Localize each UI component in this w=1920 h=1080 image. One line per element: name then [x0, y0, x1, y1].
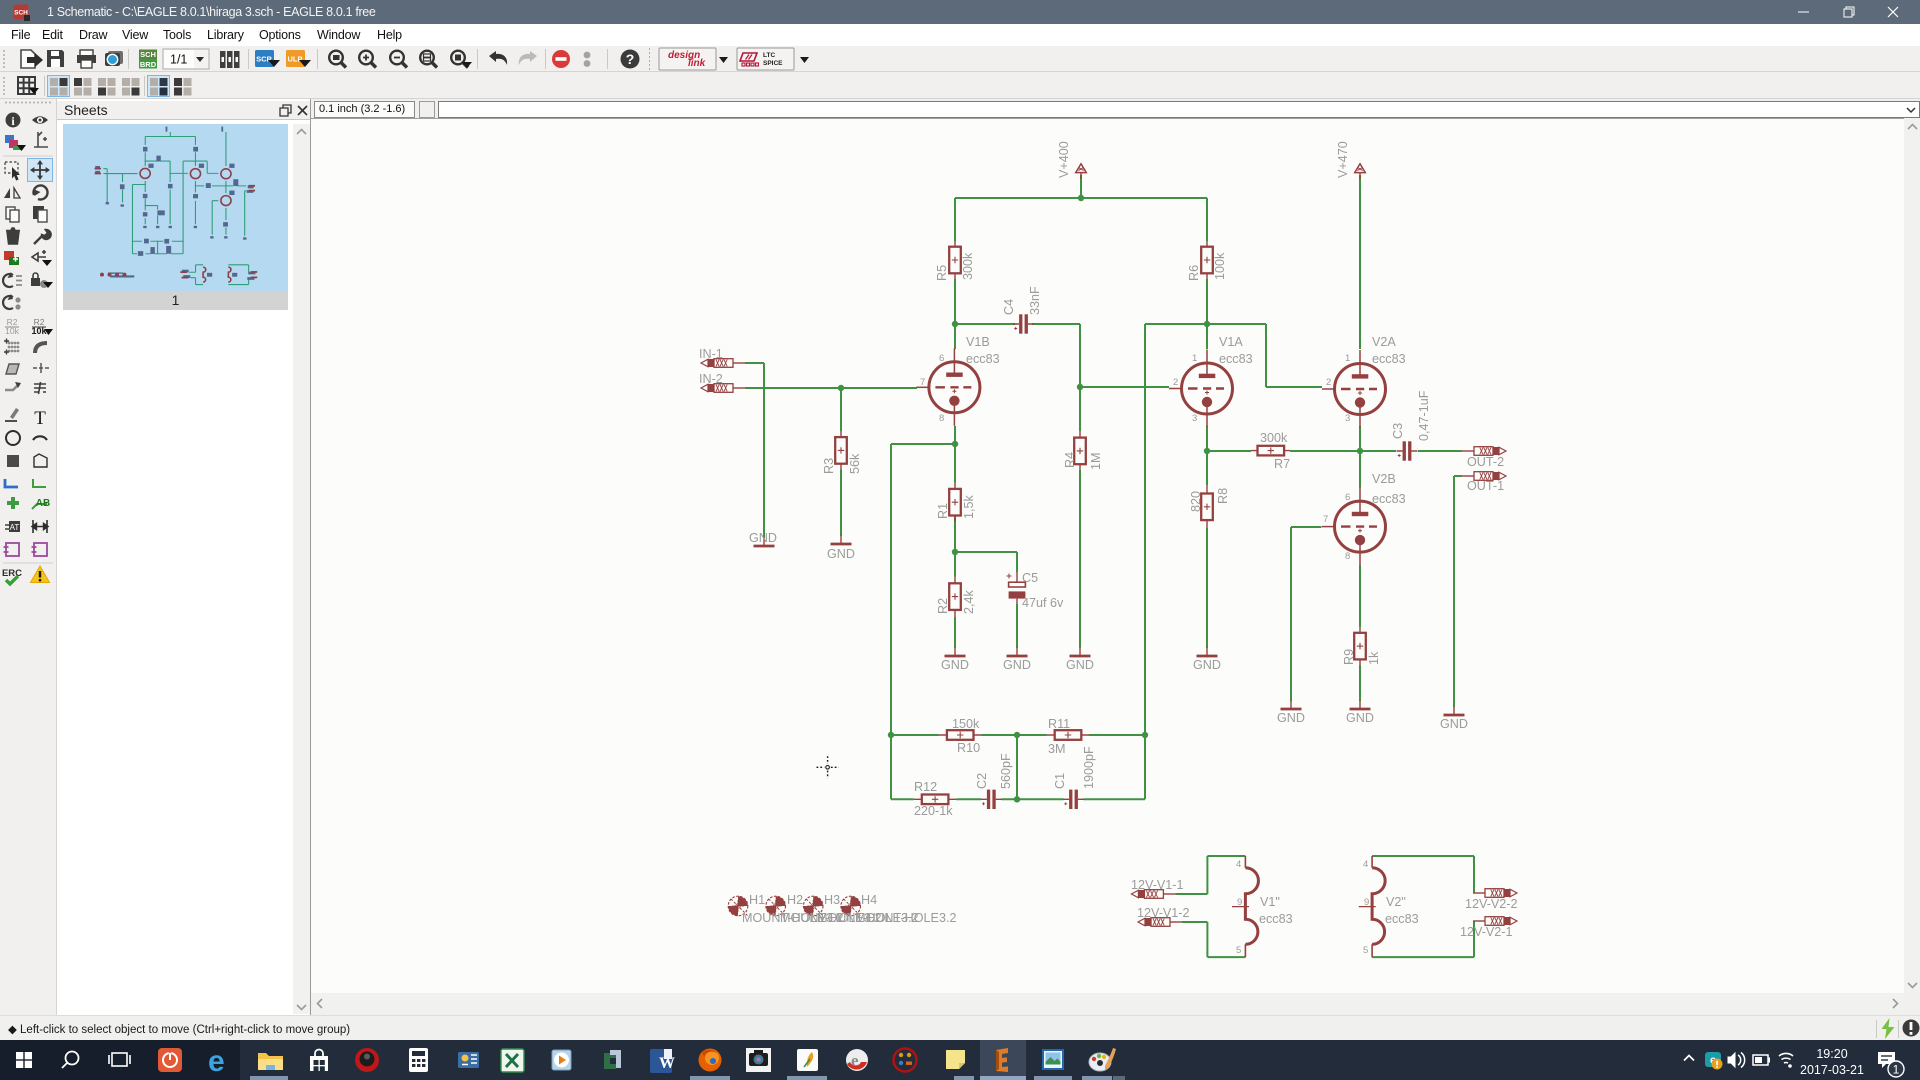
svg-text:3: 3 [1192, 413, 1197, 424]
svg-text:R3: R3 [822, 458, 836, 474]
svg-text:9: 9 [1237, 897, 1242, 908]
svg-text:SPICE: SPICE [763, 60, 783, 67]
svg-text:2: 2 [1326, 377, 1331, 388]
svg-text:V1": V1" [1260, 895, 1280, 909]
svg-text:R9: R9 [1342, 649, 1356, 665]
svg-text:6: 6 [939, 353, 944, 364]
svg-text:R6: R6 [1187, 265, 1201, 281]
svg-text:R7: R7 [1274, 457, 1290, 471]
svg-text:H2: H2 [787, 893, 803, 907]
svg-text:R4: R4 [1063, 452, 1077, 468]
svg-text:4: 4 [1236, 859, 1241, 870]
svg-text:12V-V2-2: 12V-V2-2 [1465, 897, 1518, 911]
svg-text:7: 7 [1323, 514, 1328, 525]
svg-text:56k: 56k [848, 453, 862, 474]
svg-text:1k: 1k [1367, 651, 1381, 665]
svg-text:OUT-2: OUT-2 [1467, 455, 1504, 469]
svg-text:6: 6 [1345, 492, 1350, 503]
svg-text:C3: C3 [1391, 423, 1405, 439]
svg-text:1: 1 [1893, 1063, 1900, 1077]
svg-text:ecc83: ecc83 [966, 352, 1000, 366]
svg-text:GND: GND [749, 531, 777, 545]
svg-text:12V-V1-1: 12V-V1-1 [1131, 878, 1184, 892]
svg-text:12V-V2-1: 12V-V2-1 [1460, 925, 1513, 939]
svg-text:R12: R12 [914, 780, 937, 794]
svg-text:8: 8 [1345, 551, 1350, 562]
svg-text:47uf 6v: 47uf 6v [1022, 596, 1064, 610]
svg-text:12V-V1-2: 12V-V1-2 [1137, 906, 1190, 920]
svg-text:150k: 150k [952, 717, 980, 731]
svg-text:T: T [34, 408, 46, 429]
svg-text:GND: GND [1066, 658, 1094, 672]
svg-text:9: 9 [1364, 897, 1369, 908]
svg-text:GND: GND [1440, 717, 1468, 731]
svg-text:SCH: SCH [140, 50, 156, 59]
svg-text:GND: GND [1346, 711, 1374, 725]
svg-text:300k: 300k [1260, 431, 1288, 445]
svg-text:7: 7 [920, 377, 925, 388]
svg-text:V1B: V1B [966, 335, 990, 349]
svg-text:IN-1: IN-1 [699, 347, 723, 361]
svg-text:1: 1 [1192, 353, 1197, 364]
svg-text:3: 3 [1345, 413, 1350, 424]
svg-text:8: 8 [939, 413, 944, 424]
svg-text:1: 1 [1345, 353, 1350, 364]
svg-text:820: 820 [1189, 491, 1203, 512]
svg-text:5: 5 [1236, 945, 1241, 956]
svg-text:ecc83: ecc83 [1219, 352, 1253, 366]
svg-text:IN-2: IN-2 [699, 372, 723, 386]
svg-text:e: e [851, 1051, 859, 1070]
svg-text:ERC: ERC [2, 568, 22, 579]
svg-text:ULP: ULP [288, 55, 303, 64]
svg-text:300k: 300k [961, 252, 975, 280]
svg-text:2017-03-21: 2017-03-21 [1800, 1063, 1864, 1077]
svg-text:C5: C5 [1022, 571, 1038, 585]
svg-text:R1: R1 [936, 503, 950, 519]
svg-text:V+400: V+400 [1057, 141, 1071, 178]
svg-text:GND: GND [1003, 658, 1031, 672]
svg-text:5: 5 [1363, 945, 1368, 956]
svg-text:C4: C4 [1002, 299, 1016, 315]
svg-text:GND: GND [827, 547, 855, 561]
svg-text:ecc83: ecc83 [1372, 492, 1406, 506]
svg-text:V2A: V2A [1372, 335, 1396, 349]
svg-text:GND: GND [1193, 658, 1221, 672]
svg-text:C2: C2 [975, 773, 989, 789]
svg-text:ecc83: ecc83 [1385, 912, 1419, 926]
svg-text:ecc83: ecc83 [1259, 912, 1293, 926]
svg-text:link: link [688, 58, 706, 69]
svg-text:H3: H3 [824, 893, 840, 907]
svg-text:4: 4 [1363, 859, 1368, 870]
svg-text:BRD: BRD [140, 60, 157, 69]
svg-text:V+470: V+470 [1336, 141, 1350, 178]
svg-text:V1A: V1A [1219, 335, 1243, 349]
svg-text:1/1: 1/1 [170, 53, 187, 67]
svg-text:19:20: 19:20 [1816, 1047, 1847, 1061]
svg-text:?: ? [626, 51, 635, 67]
svg-text:R10: R10 [957, 741, 980, 755]
svg-text:AB: AB [36, 498, 50, 509]
svg-text:GND: GND [941, 658, 969, 672]
svg-text:R8: R8 [1216, 488, 1230, 504]
svg-text:V2B: V2B [1372, 472, 1396, 486]
svg-text:GND: GND [1277, 711, 1305, 725]
svg-text:H4: H4 [861, 893, 877, 907]
svg-text:C1: C1 [1053, 773, 1067, 789]
svg-text:H1: H1 [749, 893, 765, 907]
svg-text:100k: 100k [1213, 252, 1227, 280]
svg-text:W: W [659, 1055, 675, 1072]
svg-text:OUT-1: OUT-1 [1467, 479, 1504, 493]
svg-text:33nF: 33nF [1028, 286, 1042, 315]
svg-text:e: e [208, 1045, 225, 1078]
svg-text:3M: 3M [1048, 742, 1066, 756]
svg-text:1,5k: 1,5k [962, 494, 976, 519]
svg-text:SCH: SCH [14, 10, 28, 17]
svg-text:220-1k: 220-1k [914, 804, 953, 818]
svg-text:R5: R5 [935, 265, 949, 281]
svg-text:2,4k: 2,4k [962, 589, 976, 614]
svg-text:560pF: 560pF [999, 753, 1013, 789]
svg-text:1900pF: 1900pF [1082, 746, 1096, 789]
svg-text:0,47-1uF: 0,47-1uF [1417, 390, 1431, 441]
svg-text:V2": V2" [1386, 895, 1406, 909]
svg-text:MOUNT-HOLE3.2: MOUNT-HOLE3.2 [855, 911, 956, 925]
svg-text:R11: R11 [1048, 717, 1070, 731]
svg-text:AT: AT [10, 523, 20, 532]
svg-text:2: 2 [1173, 377, 1178, 388]
svg-text:1M: 1M [1089, 453, 1103, 471]
svg-text:LTC: LTC [763, 52, 775, 59]
svg-text:ecc83: ecc83 [1372, 352, 1406, 366]
svg-text:R2: R2 [936, 598, 950, 614]
